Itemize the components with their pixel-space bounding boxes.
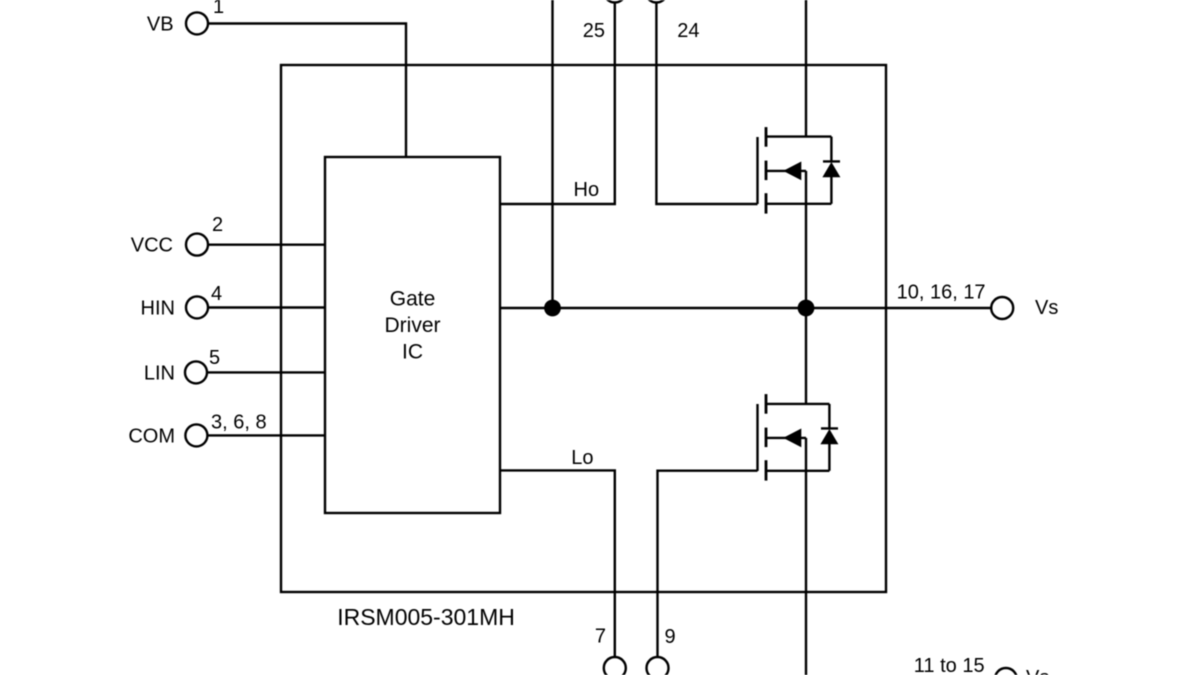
svg-text:IRSM005-301MH: IRSM005-301MH (337, 604, 515, 630)
svg-text:LIN: LIN (144, 363, 175, 385)
svg-text:COM: COM (128, 426, 175, 448)
svg-text:7: 7 (595, 626, 606, 648)
svg-text:Driver: Driver (385, 314, 441, 337)
svg-text:24: 24 (677, 20, 699, 42)
svg-text:25: 25 (583, 20, 605, 42)
svg-text:IC: IC (402, 341, 423, 364)
svg-text:HIN: HIN (141, 298, 175, 320)
svg-text:1: 1 (213, 0, 224, 18)
svg-text:3, 6, 8: 3, 6, 8 (211, 412, 267, 434)
svg-text:9: 9 (665, 626, 676, 648)
svg-text:Vs: Vs (1035, 297, 1058, 319)
svg-text:4: 4 (211, 283, 222, 305)
svg-text:Lo: Lo (571, 447, 593, 469)
svg-text:10, 16, 17: 10, 16, 17 (897, 282, 986, 304)
svg-text:5: 5 (209, 347, 220, 369)
svg-text:VCC: VCC (131, 235, 173, 257)
svg-text:Vs: Vs (1026, 667, 1049, 675)
svg-text:Ho: Ho (574, 179, 600, 201)
svg-text:2: 2 (212, 214, 223, 236)
svg-text:VB: VB (147, 14, 174, 36)
svg-text:Gate: Gate (390, 288, 436, 311)
svg-text:11 to 15: 11 to 15 (914, 655, 985, 675)
